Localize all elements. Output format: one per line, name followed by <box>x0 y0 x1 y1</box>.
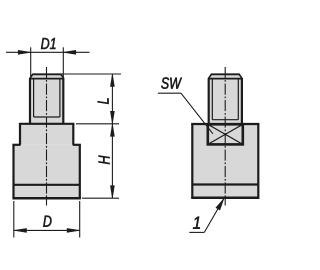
callout arrowhead <box>216 199 224 211</box>
thread runout line (right view) <box>212 119 238 121</box>
upper section outline (left view) <box>19 124 75 145</box>
dimension D1 <box>6 47 90 77</box>
bottom edge (left view) <box>12 197 81 200</box>
dimension D <box>14 201 80 238</box>
centerline (left view) <box>46 67 48 206</box>
right view: body fill <box>192 124 258 198</box>
L arrowhead bottom <box>110 111 114 124</box>
body outline (right view) <box>191 124 259 198</box>
label D <box>43 216 51 227</box>
dimension H <box>82 124 119 198</box>
bottom edge (right view) <box>191 197 259 200</box>
SW leader line <box>158 93 213 134</box>
right view: threaded stud fill <box>209 74 242 124</box>
wrench-flat box with cross (right view) <box>208 124 243 144</box>
D arrowhead right <box>67 228 80 232</box>
stud outline (left view) <box>30 74 65 124</box>
L arrowhead top <box>110 74 114 87</box>
D1 arrowhead left <box>18 50 31 54</box>
bottom band line (right view) <box>192 183 258 185</box>
bottom band line (left view) <box>14 184 80 186</box>
label H <box>99 155 110 164</box>
left view: threaded stud body fill <box>30 74 63 124</box>
left view: lower cylindrical body fill <box>14 145 80 198</box>
part callout 1 leader <box>189 199 224 233</box>
D arrowhead left <box>14 228 27 232</box>
centerline (right view) <box>224 67 226 206</box>
thread minor lines (right view) <box>212 79 238 119</box>
left view: upper square-flats section fill <box>20 124 73 145</box>
lower body outline (left view) <box>12 145 81 198</box>
H arrowhead bottom <box>110 186 114 199</box>
dimension L <box>61 74 121 124</box>
thread runout line (left view) <box>34 116 60 118</box>
H arrowhead top <box>110 124 114 137</box>
stud outline (right view) <box>208 74 242 124</box>
thread minor lines (left view) <box>34 79 60 117</box>
D1 arrowhead right <box>63 50 76 54</box>
label L <box>98 98 109 104</box>
label D1 <box>41 38 56 49</box>
callout text 1 <box>193 217 200 229</box>
label SW <box>161 77 182 88</box>
